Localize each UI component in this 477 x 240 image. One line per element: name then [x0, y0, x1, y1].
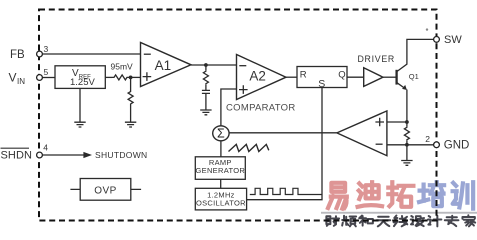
svg-text:V: V [9, 71, 17, 85]
svg-text:SHUTDOWN: SHUTDOWN [95, 150, 147, 160]
svg-text:4: 4 [43, 143, 48, 153]
svg-text:OSCILLATOR: OSCILLATOR [196, 199, 246, 208]
svg-text:OVP: OVP [94, 185, 117, 196]
svg-text:Σ: Σ [217, 127, 225, 141]
svg-text:2: 2 [425, 134, 430, 144]
svg-text:GENERATOR: GENERATOR [196, 166, 246, 175]
svg-text:FB: FB [10, 49, 25, 61]
svg-text:3: 3 [44, 44, 49, 54]
svg-text:95mV: 95mV [111, 61, 134, 71]
svg-text:A2: A2 [249, 69, 266, 84]
svg-text:GND: GND [444, 140, 470, 152]
svg-text:A1: A1 [155, 58, 172, 73]
svg-text:5: 5 [44, 67, 49, 77]
svg-text:IN: IN [17, 77, 25, 86]
svg-text:DRIVER: DRIVER [358, 54, 395, 64]
svg-text:S: S [318, 78, 325, 90]
svg-text:Q: Q [338, 70, 345, 81]
svg-text:R: R [300, 70, 307, 81]
svg-text:Q1: Q1 [409, 72, 419, 81]
svg-text:COMPARATOR: COMPARATOR [226, 103, 296, 114]
svg-text:SHDN: SHDN [1, 150, 33, 162]
svg-text:SW: SW [444, 34, 462, 46]
svg-text:1.25V: 1.25V [70, 77, 95, 88]
